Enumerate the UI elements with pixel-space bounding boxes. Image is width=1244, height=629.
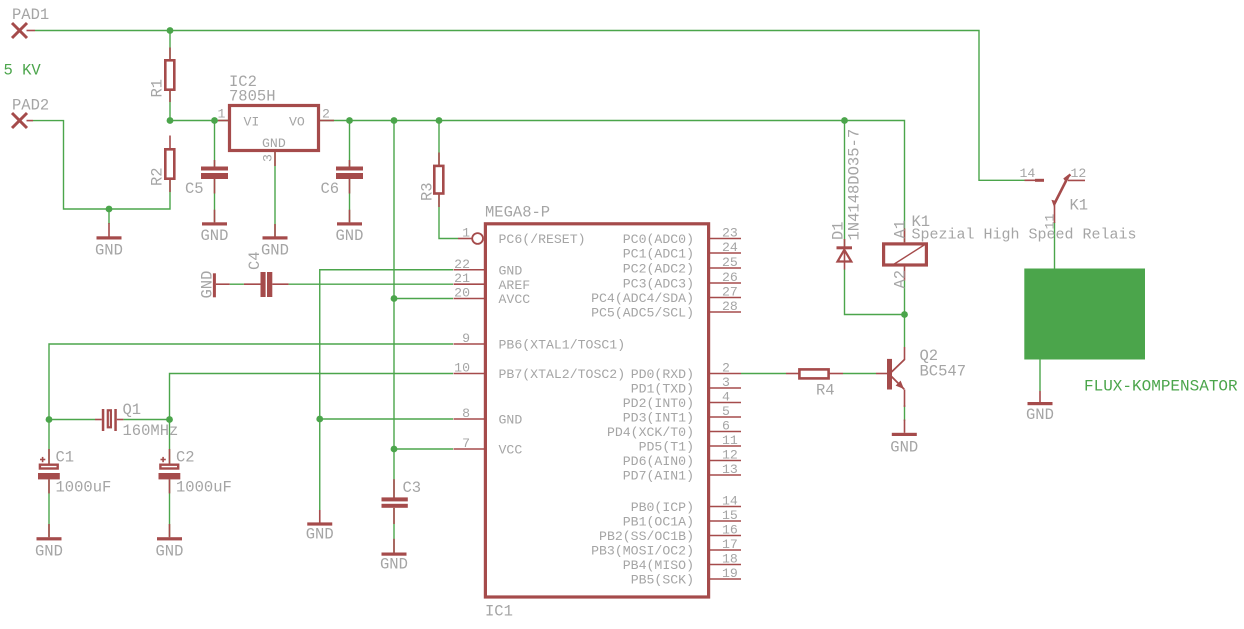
capacitor C4 bbox=[216, 251, 289, 297]
transistor Q2 BC547 bbox=[876, 347, 966, 433]
svg-text:GND: GND bbox=[499, 263, 523, 278]
svg-text:8: 8 bbox=[462, 406, 470, 421]
svg-text:PD5(T1): PD5(T1) bbox=[639, 440, 694, 455]
wire net 5KV: PAD1 to switch K1 pin 14 bbox=[35, 31, 1025, 181]
svg-text:1: 1 bbox=[218, 107, 226, 122]
IC1 pin 8 GND bbox=[454, 406, 523, 428]
svg-text:PD0(RXD): PD0(RXD) bbox=[631, 367, 694, 382]
wire net PAD2 to R2 bottom bbox=[33, 121, 170, 209]
svg-text:VI: VI bbox=[244, 115, 260, 130]
polarized capacitor C1 1000uF bbox=[38, 449, 111, 497]
IC1 pin 1 PC6(/RESET) bbox=[458, 226, 586, 248]
wire +5V branch to R3 bbox=[438, 121, 440, 165]
node junction VCC rail / pin 7 bbox=[391, 446, 398, 453]
svg-text:GND: GND bbox=[336, 227, 364, 245]
svg-text:1000uF: 1000uF bbox=[176, 479, 232, 497]
IC1 pin 25 PC2(ADC2) bbox=[623, 255, 741, 277]
IC1 pin 24 PC1(ADC1) bbox=[623, 240, 741, 262]
node junction +5V/R3 bbox=[436, 117, 443, 124]
svg-text:17: 17 bbox=[722, 537, 738, 552]
node junction 5KV/R1 bbox=[167, 27, 174, 34]
IC1 pin 27 PC4(ADC4/SDA) bbox=[591, 285, 741, 307]
crystal Q1 160MHz bbox=[95, 401, 178, 440]
resistor R4 bbox=[786, 369, 843, 399]
IC1 pin 2 PD0(RXD) bbox=[631, 361, 741, 383]
svg-text:PAD2: PAD2 bbox=[12, 97, 49, 115]
capacitor C3 bbox=[382, 479, 422, 524]
wire GND net to IC1 pin 22 and down left of IC1 bbox=[320, 270, 453, 523]
ground GND on GND rail below IC1 left bbox=[306, 510, 334, 544]
IC1 pin 10 PB7(XTAL2/TOSC2) bbox=[454, 361, 626, 383]
IC1 pin 28 PC5(ADC5/SCL) bbox=[591, 299, 741, 321]
IC1 pin 19 PB5(SCK) bbox=[631, 566, 741, 588]
svg-text:20: 20 bbox=[454, 286, 470, 301]
IC1 pin 18 PB4(MISO) bbox=[623, 552, 741, 574]
svg-text:C3: C3 bbox=[403, 479, 422, 497]
wire VIN branch down to C5 bbox=[214, 121, 216, 167]
svg-text:7: 7 bbox=[462, 436, 470, 451]
wire IC2 pin 3 to GND bbox=[274, 152, 276, 237]
svg-text:MEGA8-P: MEGA8-P bbox=[485, 204, 550, 222]
svg-text:PB4(MISO): PB4(MISO) bbox=[623, 558, 694, 573]
svg-text:PD7(AIN1): PD7(AIN1) bbox=[623, 469, 694, 484]
svg-text:PC5(ADC5/SCL): PC5(ADC5/SCL) bbox=[591, 306, 694, 321]
svg-text:PD1(TXD): PD1(TXD) bbox=[631, 382, 694, 397]
svg-text:1: 1 bbox=[462, 226, 470, 241]
IC1 pin 7 VCC bbox=[454, 436, 523, 458]
svg-text:PC3(ADC3): PC3(ADC3) bbox=[623, 277, 694, 292]
svg-text:GND: GND bbox=[95, 242, 123, 260]
IC1 pin 14 PB0(ICP) bbox=[631, 494, 741, 516]
svg-text:BC547: BC547 bbox=[920, 363, 967, 381]
ground GND under C1 bbox=[35, 524, 63, 561]
resistor R1 bbox=[149, 48, 175, 103]
svg-text:GND: GND bbox=[35, 543, 63, 561]
svg-text:C1: C1 bbox=[56, 449, 75, 467]
svg-text:C2: C2 bbox=[176, 449, 195, 467]
svg-text:14: 14 bbox=[1020, 166, 1036, 181]
IC1 pin 9 PB6(XTAL1/TOSC1) bbox=[454, 331, 626, 353]
svg-text:2: 2 bbox=[322, 107, 330, 122]
wire +5V branch to C6 bbox=[349, 121, 351, 167]
wire C1 top connection bbox=[48, 420, 50, 464]
ground GND under FLUX-KOMPENSATOR bbox=[1026, 391, 1054, 424]
node junction +5V/VCC rail bbox=[391, 117, 398, 124]
svg-text:28: 28 bbox=[722, 299, 738, 314]
svg-text:1N4148DO35-7: 1N4148DO35-7 bbox=[846, 129, 864, 241]
svg-text:160MHz: 160MHz bbox=[123, 422, 179, 440]
wire crystal left net segment bbox=[49, 419, 95, 421]
wire R4 to Q2 base bbox=[843, 373, 876, 375]
svg-text:PB1(OC1A): PB1(OC1A) bbox=[623, 515, 694, 530]
svg-text:GND: GND bbox=[380, 556, 408, 574]
IC1 pin 6 PD4(XCK/T0) bbox=[607, 419, 741, 441]
wire GND net branch to IC1 pin 8 bbox=[320, 418, 453, 420]
IC1 pin 3 PD1(TXD) bbox=[631, 375, 741, 397]
svg-text:VCC: VCC bbox=[499, 443, 523, 458]
svg-text:Spezial High Speed Relais: Spezial High Speed Relais bbox=[912, 227, 1137, 244]
svg-text:PD2(INT0): PD2(INT0) bbox=[623, 396, 694, 411]
node junction GND rail / pin 8 bbox=[316, 416, 323, 423]
wire FLUX-KOMPENSATOR to GND bbox=[1039, 360, 1041, 392]
ground GND left of C4 (rotated) bbox=[198, 271, 216, 299]
ground GND under IC2 pin 3 bbox=[261, 224, 289, 260]
wire 5KV branch down to R1 bbox=[169, 31, 171, 60]
node junction PB7/Q1/C2 bbox=[166, 416, 173, 423]
IC1 pin 13 PD7(AIN1) bbox=[623, 462, 741, 484]
svg-text:24: 24 bbox=[722, 240, 738, 255]
relay coil K1 A1/A2 bbox=[884, 213, 1137, 289]
svg-text:PB5(SCK): PB5(SCK) bbox=[631, 573, 694, 588]
wire AVCC branch to IC1 pin 20 bbox=[394, 298, 453, 300]
IC1 pin 11 PD5(T1) bbox=[639, 433, 741, 455]
node junction PB6/Q1/C1 bbox=[46, 416, 53, 423]
IC1 pin 15 PB1(OC1A) bbox=[623, 508, 741, 530]
svg-text:16: 16 bbox=[722, 523, 738, 538]
svg-text:VO: VO bbox=[289, 115, 305, 130]
IC1 pin 20 AVCC bbox=[454, 286, 531, 308]
svg-text:GND: GND bbox=[306, 526, 334, 544]
wire GND stub from PAD2 net junction bbox=[108, 209, 110, 224]
pad PAD1 bbox=[12, 6, 49, 38]
svg-text:PB6(XTAL1/TOSC1): PB6(XTAL1/TOSC1) bbox=[499, 338, 626, 353]
svg-text:21: 21 bbox=[454, 271, 470, 286]
svg-text:14: 14 bbox=[722, 494, 738, 509]
svg-text:A2: A2 bbox=[891, 270, 909, 289]
IC1 pin 26 PC3(ADC3) bbox=[623, 270, 741, 292]
polarized capacitor C2 1000uF bbox=[159, 449, 232, 497]
ground GND under C5 bbox=[201, 210, 229, 245]
svg-text:11: 11 bbox=[1042, 214, 1057, 230]
svg-text:AREF: AREF bbox=[499, 278, 531, 293]
wire GND symbol to C4 bbox=[230, 283, 244, 285]
wire relay A2 down to Q2 collector bbox=[904, 281, 906, 348]
wire switch K1 pin 11 down to FLUX-KOMPENSATOR bbox=[1054, 222, 1056, 269]
svg-text:18: 18 bbox=[722, 552, 738, 567]
svg-text:PC4(ADC4/SDA): PC4(ADC4/SDA) bbox=[591, 291, 694, 306]
svg-text:FLUX-KOMPENSATOR: FLUX-KOMPENSATOR bbox=[1084, 378, 1238, 396]
svg-text:6: 6 bbox=[722, 419, 730, 434]
svg-text:11: 11 bbox=[722, 433, 738, 448]
svg-text:GND: GND bbox=[890, 439, 918, 457]
svg-text:R3: R3 bbox=[419, 182, 437, 201]
wire C2 top connection bbox=[169, 420, 171, 464]
svg-text:GND: GND bbox=[156, 543, 184, 561]
svg-text:PB2(SS/OC1B): PB2(SS/OC1B) bbox=[599, 529, 694, 544]
wire +5V branch down to D1 bbox=[844, 121, 846, 247]
wire C1 bottom to GND bbox=[48, 479, 50, 537]
svg-text:27: 27 bbox=[722, 285, 738, 300]
svg-text:23: 23 bbox=[722, 226, 738, 241]
wire C6 bottom to GND bbox=[349, 179, 351, 222]
wire PB6 net: down-left to crystal bbox=[49, 344, 453, 420]
svg-text:C5: C5 bbox=[185, 180, 204, 198]
svg-text:3: 3 bbox=[261, 154, 276, 162]
svg-text:PD3(INT1): PD3(INT1) bbox=[623, 411, 694, 426]
node junction +5V/D1 bbox=[841, 117, 848, 124]
node junction D1/K1 coil/Q2 collector bbox=[901, 311, 908, 318]
svg-text:A1: A1 bbox=[891, 220, 909, 239]
svg-text:PAD1: PAD1 bbox=[12, 6, 49, 24]
svg-text:PC1(ADC1): PC1(ADC1) bbox=[623, 247, 694, 262]
svg-text:13: 13 bbox=[722, 462, 738, 477]
ground GND under C3 bbox=[380, 539, 408, 574]
pad PAD2 bbox=[12, 97, 49, 129]
svg-text:R1: R1 bbox=[149, 79, 167, 98]
IC1 pin 16 PB2(SS/OC1B) bbox=[599, 523, 741, 545]
svg-text:PD6(AIN0): PD6(AIN0) bbox=[623, 454, 694, 469]
ground GND on PAD2 net bbox=[95, 223, 123, 260]
wire +5V vertical branch down to C3 (VCC rail) bbox=[393, 121, 395, 498]
svg-text:15: 15 bbox=[722, 508, 738, 523]
wire Q2 emitter to GND bbox=[904, 405, 906, 421]
node junction PAD2 net / GND bbox=[106, 206, 113, 213]
resistor R2 bbox=[149, 136, 175, 193]
svg-text:PB0(ICP): PB0(ICP) bbox=[631, 500, 694, 515]
FLUX-KOMPENSATOR block bbox=[1024, 269, 1238, 396]
svg-text:GND: GND bbox=[262, 136, 286, 151]
svg-text:GND: GND bbox=[1026, 406, 1054, 424]
wire C3 bottom to GND bbox=[393, 508, 395, 553]
svg-text:IC1: IC1 bbox=[485, 603, 513, 621]
wire VCC branch to IC1 pin 7 bbox=[394, 448, 453, 450]
svg-text:26: 26 bbox=[722, 270, 738, 285]
svg-text:PB7(XTAL2/TOSC2): PB7(XTAL2/TOSC2) bbox=[499, 367, 626, 382]
svg-text:Q1: Q1 bbox=[123, 401, 142, 419]
wire C4 to IC1 pin 21 AREF bbox=[289, 283, 453, 285]
svg-text:1000uF: 1000uF bbox=[56, 479, 112, 497]
node junction +5V/C6 bbox=[346, 117, 353, 124]
svg-text:AVCC: AVCC bbox=[499, 292, 531, 307]
IC1 pin 12 PD6(AIN0) bbox=[623, 448, 741, 470]
IC1 pin 22 GND bbox=[454, 257, 523, 279]
svg-text:C6: C6 bbox=[321, 180, 340, 198]
wire net +5V: IC2 VO across to relay K1 coil bbox=[320, 121, 905, 243]
ground GND under Q2 emitter bbox=[890, 433, 918, 457]
svg-text:3: 3 bbox=[722, 375, 730, 390]
wire net VIN: R1 bottom to IC2 pin VI bbox=[170, 90, 228, 121]
svg-text:PB3(MOSI/OC2): PB3(MOSI/OC2) bbox=[591, 544, 694, 559]
wire crystal right net segment bbox=[123, 419, 169, 421]
wire D1 bottom to collector net bbox=[845, 269, 905, 315]
IC1 pin 23 PC0(ADC0) bbox=[623, 226, 741, 248]
svg-text:10: 10 bbox=[454, 361, 470, 376]
resistor R3 bbox=[419, 153, 444, 208]
diode D1 1N4148DO35-7 bbox=[830, 129, 864, 270]
svg-text:19: 19 bbox=[722, 566, 738, 581]
svg-text:12: 12 bbox=[1071, 166, 1087, 181]
IC1 pin 4 PD2(INT0) bbox=[623, 390, 741, 412]
svg-text:K1: K1 bbox=[1070, 197, 1089, 215]
wire IC1 pin 2 PD0 to R4 bbox=[741, 373, 786, 375]
svg-text:25: 25 bbox=[722, 255, 738, 270]
wire R3 bottom to IC1 pin 1 bbox=[439, 195, 458, 239]
svg-text:GND: GND bbox=[499, 413, 523, 428]
capacitor C6 bbox=[321, 160, 364, 198]
svg-text:PC2(ADC2): PC2(ADC2) bbox=[623, 262, 694, 277]
svg-text:5: 5 bbox=[722, 404, 730, 419]
wire C5 bottom to GND bbox=[214, 179, 216, 222]
microcontroller IC1 MEGA8-P body bbox=[485, 204, 709, 621]
svg-text:22: 22 bbox=[454, 257, 470, 272]
node junction R1/R2/VIN bbox=[167, 117, 174, 124]
svg-text:GND: GND bbox=[261, 242, 289, 260]
svg-text:R2: R2 bbox=[149, 167, 167, 186]
IC1 pin 21 AREF bbox=[454, 271, 531, 293]
svg-text:PC0(ADC0): PC0(ADC0) bbox=[623, 232, 694, 247]
svg-text:C4: C4 bbox=[246, 251, 264, 270]
IC1 pin 5 PD3(INT1) bbox=[623, 404, 741, 426]
svg-text:4: 4 bbox=[722, 390, 730, 405]
svg-text:PC6(/RESET): PC6(/RESET) bbox=[499, 232, 586, 247]
node junction VCC rail / AVCC bbox=[391, 295, 398, 302]
svg-text:2: 2 bbox=[722, 361, 730, 376]
node junction VIN/C5 bbox=[211, 117, 218, 124]
relay switch contact K1 pins 14/12/11 bbox=[1020, 166, 1089, 230]
capacitor C5 bbox=[185, 160, 228, 198]
svg-text:PD4(XCK/T0): PD4(XCK/T0) bbox=[607, 425, 694, 440]
svg-text:GND: GND bbox=[198, 271, 216, 299]
voltage regulator IC2 7805H bbox=[218, 73, 335, 166]
wire C2 bottom to GND bbox=[169, 479, 171, 537]
ground GND under C2 bbox=[156, 524, 184, 561]
wire PB7 net: down-left to crystal bbox=[170, 374, 454, 420]
svg-text:GND: GND bbox=[201, 227, 229, 245]
IC1 pin 17 PB3(MOSI/OC2) bbox=[591, 537, 741, 559]
svg-text:R4: R4 bbox=[816, 382, 835, 400]
ground GND under C6 bbox=[336, 210, 364, 245]
svg-text:5 KV: 5 KV bbox=[4, 62, 42, 80]
svg-text:12: 12 bbox=[722, 448, 738, 463]
svg-text:9: 9 bbox=[462, 331, 470, 346]
svg-text:7805H: 7805H bbox=[229, 88, 276, 106]
